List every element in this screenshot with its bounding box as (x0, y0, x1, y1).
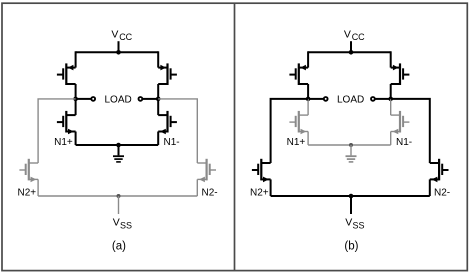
svg-text:N2+: N2+ (18, 188, 37, 199)
transistor N1+ (b) (298, 111, 300, 133)
p-channel MOSFET right (b) (399, 63, 401, 85)
terminal LOAD right (139, 97, 143, 101)
wire VSS rail (38, 195, 197, 197)
transistor N1- (a) (166, 111, 168, 133)
terminal LOAD left (91, 97, 95, 101)
wire P2 drain to LOAD (157, 84, 159, 99)
wire VSS stub (350, 196, 352, 214)
p-channel MOSFET left (a) (65, 63, 67, 85)
wire VCC rail (308, 51, 391, 53)
wire N1- source down (157, 132, 159, 146)
svg-text:LOAD: LOAD (105, 95, 132, 106)
wire VCC rail to P1 source (307, 51, 309, 67)
transistor N1+ (a) (65, 111, 67, 133)
svg-text:(b): (b) (344, 241, 358, 253)
transistor N1- (b) (399, 111, 401, 133)
junction VCC rail (116, 50, 121, 55)
svg-text:N1-: N1- (164, 137, 180, 148)
wire LOAD to N2- drain (158, 99, 197, 163)
terminal LOAD right (371, 97, 375, 101)
svg-text:V: V (113, 217, 120, 229)
svg-text:(a): (a) (112, 241, 126, 253)
wire N1 source rail (76, 144, 159, 146)
wire LOAD to N1- drain (157, 99, 159, 115)
transistor N2- (a) (206, 159, 208, 181)
junction LOAD right (388, 97, 393, 102)
junction VSS rail (349, 194, 354, 199)
wire LOAD to N2+ drain (271, 99, 309, 163)
svg-text:N1-: N1- (396, 137, 412, 148)
svg-text:CC: CC (352, 32, 365, 42)
wire P2 drain to LOAD (390, 84, 392, 99)
wire VSS stub (118, 196, 120, 214)
wire P1 drain to LOAD (75, 84, 77, 99)
wire VCC rail to P2 source (390, 51, 392, 67)
wire N2- source down (429, 179, 431, 196)
wire LOAD to N2- drain (391, 99, 430, 163)
svg-text:V: V (111, 29, 118, 41)
svg-text:SS: SS (353, 221, 365, 231)
wire LOAD right (143, 98, 159, 100)
wire LOAD left (76, 98, 91, 100)
svg-text:SS: SS (120, 221, 132, 231)
wire VSS rail (271, 195, 430, 197)
panel divider (234, 3, 236, 270)
svg-text:CC: CC (119, 32, 132, 42)
wire LOAD to N2+ drain (38, 99, 76, 163)
wire LOAD to N1+ drain (307, 99, 309, 115)
wire VCC stub (350, 41, 352, 52)
wire N1 source rail (308, 144, 391, 146)
wire LOAD right (375, 98, 391, 100)
junction VSS rail (117, 194, 121, 198)
svg-text:V: V (344, 29, 351, 41)
wire VCC rail (76, 51, 159, 53)
p-channel MOSFET left (b) (298, 63, 300, 85)
svg-text:V: V (345, 217, 352, 229)
svg-text:N2+: N2+ (250, 188, 269, 199)
svg-text:N1+: N1+ (54, 137, 73, 148)
transistor N2+ (a) (28, 159, 30, 181)
wire VCC rail to P1 source (75, 51, 77, 67)
svg-text:LOAD: LOAD (337, 95, 364, 106)
terminal LOAD left (324, 97, 328, 101)
wire P1 drain to LOAD (307, 84, 309, 99)
wire N2+ source down (37, 179, 39, 196)
wire LOAD to N1+ drain (75, 99, 77, 115)
junction LOAD right (156, 97, 161, 102)
junction N1 source rail (349, 143, 353, 147)
svg-text:N2-: N2- (434, 188, 450, 199)
transistor N2- (b) (438, 159, 440, 181)
wire N2+ source down (270, 179, 272, 196)
wire N1+ source down (75, 132, 77, 146)
wire LOAD to N1- drain (390, 99, 392, 115)
wire N1+ source down (307, 132, 309, 146)
junction LOAD left (73, 97, 78, 102)
wire N2- source down (196, 179, 198, 196)
junction LOAD left (306, 97, 311, 102)
wire VCC rail to P2 source (157, 51, 159, 67)
svg-text:N2-: N2- (202, 188, 218, 199)
ground symbol (a) (118, 145, 120, 155)
ground symbol (b) (350, 145, 352, 155)
wire N1- source down (390, 132, 392, 146)
wire VCC stub (118, 41, 120, 52)
wire LOAD left (308, 98, 323, 100)
p-channel MOSFET right (a) (166, 63, 168, 85)
junction N1 source rail (116, 143, 121, 148)
transistor N2+ (b) (260, 159, 262, 181)
junction VCC rail (349, 50, 354, 55)
svg-text:N1+: N1+ (287, 137, 306, 148)
